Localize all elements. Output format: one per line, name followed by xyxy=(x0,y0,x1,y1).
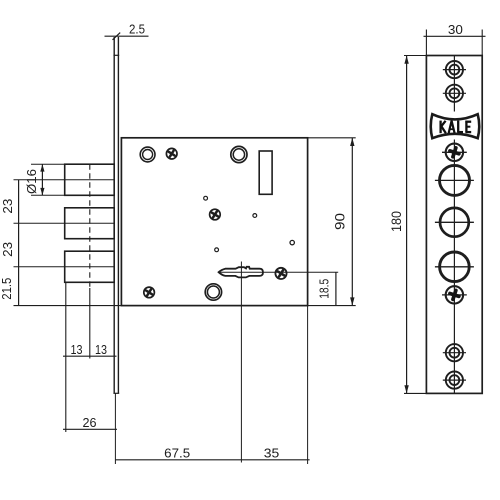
bolt 2 (middle) xyxy=(14,208,115,239)
svg-text:13: 13 xyxy=(95,342,107,357)
faceplate centerline lower xyxy=(453,140,455,394)
svg-text:23: 23 xyxy=(0,242,15,257)
dim 67.5 and 35 line xyxy=(115,459,309,461)
dim 26 line xyxy=(63,428,117,430)
KALE logo xyxy=(431,114,480,138)
dim 180 line with arrows xyxy=(404,56,408,394)
svg-text:21.5: 21.5 xyxy=(0,278,14,300)
svg-text:18.5: 18.5 xyxy=(316,279,331,299)
lock body outline xyxy=(121,138,307,306)
bolt mid dashed line (13 travel) xyxy=(89,164,91,358)
plate cylinder hole 1 xyxy=(435,165,474,195)
svg-text:90: 90 xyxy=(333,213,348,230)
bolt tip extension line down xyxy=(65,282,67,432)
body right edge extension down xyxy=(307,306,309,464)
small pin hole b xyxy=(253,214,257,218)
screw top-left xyxy=(166,148,177,159)
plate star screw top xyxy=(442,144,467,161)
faceplate front outline xyxy=(426,56,482,394)
ring hole bottom-middle xyxy=(205,284,221,300)
svg-text:13: 13 xyxy=(71,342,83,357)
svg-text:Ø16: Ø16 xyxy=(24,169,39,194)
svg-text:2.5: 2.5 xyxy=(129,22,145,37)
dim 180 extension lines xyxy=(404,56,426,394)
plate screw 1 xyxy=(443,61,466,78)
small pin hole a xyxy=(204,196,208,200)
plate cylinder hole 3 xyxy=(435,252,474,282)
small pin hole d xyxy=(290,240,294,244)
svg-text:67.5: 67.5 xyxy=(164,445,190,460)
plate screw 4 xyxy=(443,372,466,389)
key vertical extension line xyxy=(240,262,242,463)
faceplate strip extension down xyxy=(114,393,116,464)
body top edge extension to 90 dim xyxy=(308,137,356,139)
body bottom edge extension left xyxy=(14,305,122,307)
faceplate edge strip xyxy=(113,37,119,393)
screw mid xyxy=(210,209,221,220)
body bottom edge extension right xyxy=(308,305,356,307)
dim 18.5 line xyxy=(335,272,337,305)
key bit shape xyxy=(219,267,263,278)
plate screw 3 xyxy=(443,344,466,361)
key centerline xyxy=(218,271,338,273)
screw bottom-left xyxy=(144,287,155,298)
svg-text:30: 30 xyxy=(448,22,463,37)
ring hole top-left xyxy=(140,147,155,162)
dim 13 13 line xyxy=(63,355,117,357)
bolt 3 (bottom) xyxy=(14,251,115,282)
slot cutout xyxy=(259,151,272,194)
plate star screw bottom xyxy=(442,286,467,303)
screw right of key xyxy=(275,268,286,279)
ring hole top-middle xyxy=(231,146,247,162)
bolt 1 (top) xyxy=(14,164,115,195)
dim Ø16 xyxy=(31,164,65,195)
svg-text:23: 23 xyxy=(0,199,15,214)
dim 90 line with arrows xyxy=(350,138,354,306)
dim 30 extension lines xyxy=(426,30,482,56)
left chain dim line xyxy=(18,180,20,306)
plate cylinder hole 2 xyxy=(435,208,474,237)
svg-text:35: 35 xyxy=(264,445,280,460)
dim 2.5 line xyxy=(105,33,149,40)
svg-text:26: 26 xyxy=(83,415,97,430)
small pin hole c xyxy=(215,248,219,252)
svg-text:180: 180 xyxy=(389,211,404,232)
dim 30 line xyxy=(424,35,486,37)
faceplate centerline upper xyxy=(453,56,455,112)
plate screw 2 xyxy=(443,85,466,102)
